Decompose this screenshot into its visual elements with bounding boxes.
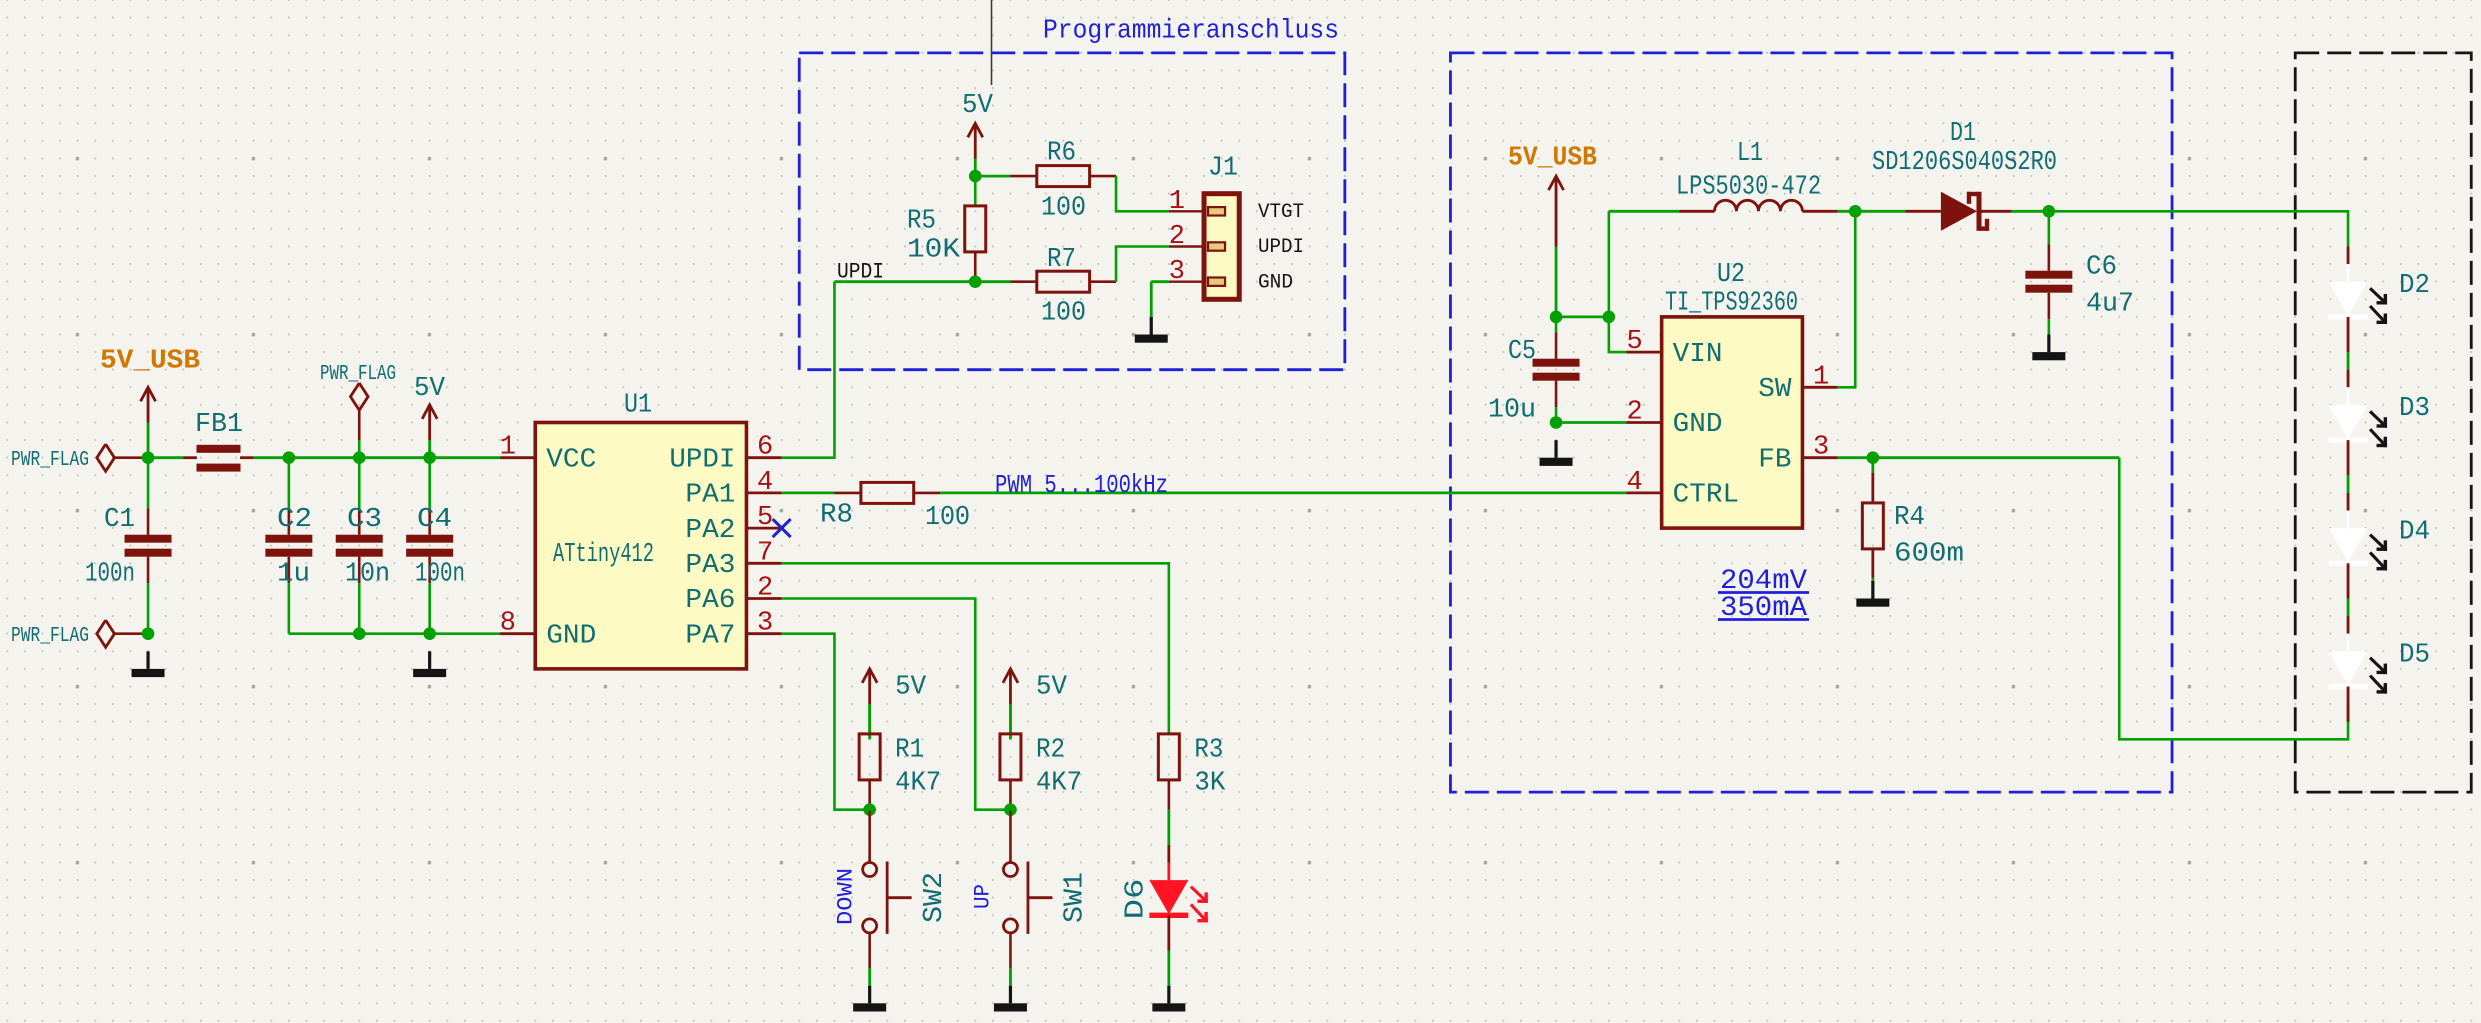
wire into LED D2 <box>2347 247 2350 265</box>
svg-text:D5: D5 <box>2399 641 2430 671</box>
ground below C4 <box>428 651 431 669</box>
junction A3 <box>353 451 366 464</box>
svg-text:L1: L1 <box>1737 139 1763 169</box>
junction A4 <box>423 451 436 464</box>
dashed box LED driver <box>1450 53 2172 792</box>
wire PWM net <box>940 491 1626 494</box>
resistor R8 <box>834 492 860 495</box>
junction B4 <box>1849 205 1862 218</box>
svg-text:R4: R4 <box>1894 503 1925 533</box>
svg-text:C1: C1 <box>104 505 135 535</box>
svg-text:3: 3 <box>1169 257 1185 287</box>
svg-text:GND: GND <box>1673 410 1723 440</box>
pin 1 VCC (U1) <box>500 456 535 459</box>
svg-text:5V: 5V <box>962 91 994 121</box>
ground below C5 <box>1554 440 1557 458</box>
svg-text:U2: U2 <box>1717 260 1745 290</box>
switch SW2 <box>868 811 871 863</box>
junction SW1 top <box>1004 803 1017 816</box>
junction B2 <box>1603 311 1616 324</box>
svg-text:1u: 1u <box>277 560 310 590</box>
capacitor C6 <box>2048 211 2051 244</box>
svg-text:R1: R1 <box>895 736 924 766</box>
ground J1 GND <box>1150 317 1153 335</box>
junction B6 <box>1867 451 1880 464</box>
svg-text:3: 3 <box>757 609 773 639</box>
pin 5 PA2 (U1) <box>746 527 781 530</box>
capacitor C1 <box>147 458 150 509</box>
pin 1 SW (U2) <box>1802 386 1837 389</box>
svg-text:10u: 10u <box>1488 396 1536 426</box>
wire into LED D3 <box>2347 317 2350 352</box>
wire FB row <box>1838 456 2120 459</box>
svg-text:D1: D1 <box>1950 119 1976 149</box>
svg-text:R8: R8 <box>820 501 853 531</box>
pin 6 UPDI (U1) <box>746 456 781 459</box>
ground below R4 <box>1871 581 1874 599</box>
ground below SW2 <box>868 986 871 1004</box>
svg-text:LPS5030-472: LPS5030-472 <box>1676 173 1821 203</box>
svg-text:SW1: SW1 <box>1061 872 1091 923</box>
pin 4 CTRL (U2) <box>1626 491 1661 494</box>
wire PA6 to SW1 column <box>782 599 1011 810</box>
svg-text:7: 7 <box>757 538 773 568</box>
pin 2 UPDI (J1) <box>1169 245 1204 247</box>
pin 2 PA6 (U1) <box>746 597 781 600</box>
svg-text:GND: GND <box>546 621 596 651</box>
dashed box Programmieranschluss <box>799 53 1345 370</box>
svg-text:VTGT: VTGT <box>1258 201 1304 224</box>
power symbol 5V above C4 <box>428 407 431 440</box>
junction A2 <box>283 451 296 464</box>
svg-text:VIN: VIN <box>1673 340 1723 370</box>
svg-text:C3: C3 <box>347 505 382 535</box>
svg-text:Programmieranschluss: Programmieranschluss <box>1043 17 1339 47</box>
junction A6 <box>353 627 366 640</box>
junction A1 <box>142 451 155 464</box>
resistor R2 <box>1009 704 1012 734</box>
svg-text:5: 5 <box>1626 327 1642 357</box>
svg-text:PA7: PA7 <box>685 621 735 651</box>
wire into LED D4 <box>2347 440 2350 475</box>
wire VIN riser <box>1609 211 1627 352</box>
wire D6 to ground <box>1167 915 1170 950</box>
svg-text:PWR_FLAG: PWR_FLAG <box>320 363 396 386</box>
junction B5 <box>2043 205 2056 218</box>
resistor R1 <box>868 704 871 734</box>
svg-text:4: 4 <box>757 468 773 498</box>
svg-text:C6: C6 <box>2086 253 2117 283</box>
svg-text:600m: 600m <box>1894 540 1964 570</box>
wire SW to top row <box>1838 211 1856 387</box>
resistor R7 <box>1010 280 1036 283</box>
power symbol 5V_USB (left) <box>147 389 150 422</box>
svg-text:UP: UP <box>971 884 996 909</box>
power symbol 5V above R2 <box>1009 671 1012 704</box>
wire C5 bottom row (GND pin) <box>1556 421 1626 424</box>
svg-text:CTRL: CTRL <box>1673 481 1739 511</box>
svg-text:SW: SW <box>1758 375 1792 405</box>
svg-text:R7: R7 <box>1047 245 1076 275</box>
svg-text:100: 100 <box>925 503 970 533</box>
svg-text:R6: R6 <box>1047 139 1076 169</box>
svg-text:5V: 5V <box>895 672 927 702</box>
svg-text:1: 1 <box>500 433 516 463</box>
ground below C6 <box>2047 335 2050 353</box>
wire UPDI down to U1 <box>782 282 835 458</box>
power symbol 5V (programming) <box>974 125 977 158</box>
power flag PWR_FLAG above C3 <box>350 383 368 410</box>
pin 1 VTGT (J1) <box>1169 210 1204 212</box>
ground below SW1 <box>1009 986 1012 1004</box>
wire GND rail <box>289 632 500 635</box>
svg-text:5V_USB: 5V_USB <box>100 347 200 377</box>
wire R3 to LED D6 <box>1167 810 1170 845</box>
ferrite bead FB1 <box>183 456 197 459</box>
svg-text:SD1206S040S2R0: SD1206S040S2R0 <box>1872 148 2057 178</box>
svg-text:FB1: FB1 <box>195 410 243 440</box>
svg-text:DOWN: DOWN <box>834 868 859 925</box>
svg-text:D2: D2 <box>2399 271 2430 301</box>
wire VCC rail to U1 <box>254 456 500 459</box>
power flag PWR_FLAG bottom <box>97 620 115 647</box>
wire FB feedback loop <box>2119 458 2348 740</box>
IC U1 ATtiny412 body <box>535 423 746 669</box>
svg-text:3K: 3K <box>1194 769 1226 799</box>
resistor R4 <box>1871 458 1874 473</box>
svg-text:5V_USB: 5V_USB <box>1508 144 1597 174</box>
wire C5 top row <box>1556 315 1609 318</box>
svg-text:PWR_FLAG: PWR_FLAG <box>11 449 89 472</box>
svg-text:4: 4 <box>1626 468 1642 498</box>
svg-text:100: 100 <box>1041 194 1086 224</box>
capacitor C5 <box>1555 317 1558 332</box>
svg-text:8: 8 <box>500 609 516 639</box>
LED D6 <box>1167 863 1170 881</box>
junction P1 <box>969 170 982 183</box>
svg-text:C4: C4 <box>417 505 452 535</box>
junction A7 <box>423 627 436 640</box>
svg-text:TI_TPS92360: TI_TPS92360 <box>1665 289 1798 319</box>
svg-text:PWR_FLAG: PWR_FLAG <box>11 625 89 648</box>
svg-text:C5: C5 <box>1508 337 1536 367</box>
pin 4 PA1 (U1) <box>746 491 781 494</box>
no-connect X on PA2 <box>773 519 791 537</box>
svg-text:100n: 100n <box>85 560 135 590</box>
ground below C1 <box>146 651 149 669</box>
svg-text:D3: D3 <box>2399 394 2430 424</box>
LED D3 <box>2347 387 2350 405</box>
wire VCC rail left <box>148 456 183 459</box>
svg-text:PA1: PA1 <box>685 481 735 511</box>
pin 8 GND (U1) <box>500 632 535 635</box>
svg-text:R2: R2 <box>1036 736 1065 766</box>
svg-text:SW2: SW2 <box>920 872 950 923</box>
svg-text:2: 2 <box>757 574 773 604</box>
wire PA3 to R3 column <box>782 563 1169 704</box>
capacitor C4 <box>428 458 431 509</box>
LED D4 <box>2347 511 2350 529</box>
svg-text:UPDI: UPDI <box>1258 236 1304 259</box>
LED D2 <box>2347 264 2350 282</box>
wire PA7 to SW2 column <box>782 634 870 810</box>
LED D5 <box>2347 634 2350 652</box>
svg-text:1: 1 <box>1813 362 1829 392</box>
wire PA1 to R8 <box>782 491 835 494</box>
wire R6 row <box>975 175 1010 178</box>
svg-text:100: 100 <box>1041 299 1086 329</box>
wire R7 to J1 pin2 <box>1116 247 1169 282</box>
svg-text:PWM 5...100kHz: PWM 5...100kHz <box>995 470 1168 500</box>
svg-text:D6: D6 <box>1122 879 1152 920</box>
wire J1 pin3 to ground <box>1151 280 1169 283</box>
resistor R6 <box>1010 175 1036 178</box>
svg-text:R5: R5 <box>907 207 936 237</box>
svg-text:1: 1 <box>1169 187 1185 217</box>
svg-text:10n: 10n <box>345 560 390 590</box>
resistor R3 <box>1168 704 1171 734</box>
svg-text:5: 5 <box>757 503 773 533</box>
svg-text:6: 6 <box>757 433 773 463</box>
pin 3 GND (J1) <box>1169 281 1204 283</box>
svg-text:PA6: PA6 <box>685 586 735 616</box>
svg-text:4K7: 4K7 <box>1036 769 1082 799</box>
svg-text:5V: 5V <box>414 374 446 404</box>
pin 5 VIN (U2) <box>1626 351 1661 354</box>
wire top row to L1 <box>1609 210 1679 213</box>
power symbol 5V_USB (right) <box>1555 178 1558 246</box>
svg-text:FB: FB <box>1758 445 1791 475</box>
capacitor C3 <box>358 458 361 509</box>
stray vertical sheet line <box>991 0 993 85</box>
pin 3 FB (U2) <box>1802 456 1837 459</box>
junction A5 <box>142 627 155 640</box>
dashed box LED string <box>2295 53 2471 792</box>
resistor R5 <box>974 176 977 206</box>
junction P2 <box>969 275 982 288</box>
wire D5 to feedback <box>2347 687 2350 722</box>
svg-text:C2: C2 <box>277 505 312 535</box>
svg-text:UPDI: UPDI <box>669 445 735 475</box>
pin 3 PA7 (U1) <box>746 632 781 635</box>
wire L1 to D1 <box>1838 210 1906 213</box>
svg-text:100n: 100n <box>415 560 465 590</box>
wire R6 to J1 pin1 <box>1116 176 1169 211</box>
junction SW2 top <box>863 803 876 816</box>
svg-text:R3: R3 <box>1194 736 1223 766</box>
capacitor C2 <box>288 458 291 509</box>
wire into LED D5 <box>2347 563 2350 598</box>
junction B1 <box>1550 311 1563 324</box>
connector J1 body <box>1204 194 1239 300</box>
wire top row to LED string <box>2049 211 2348 246</box>
pin 2 GND (U2) <box>1626 421 1661 424</box>
svg-text:4K7: 4K7 <box>895 769 941 799</box>
svg-text:GND: GND <box>1258 271 1293 294</box>
svg-text:UPDI: UPDI <box>837 260 884 285</box>
svg-text:4u7: 4u7 <box>2086 290 2134 320</box>
ground below D6 <box>1167 986 1170 1004</box>
svg-text:5V: 5V <box>1036 672 1068 702</box>
switch SW1 <box>1009 811 1012 863</box>
wire UPDI row <box>834 280 1010 283</box>
svg-text:2: 2 <box>1169 222 1185 252</box>
svg-text:PA3: PA3 <box>685 551 735 581</box>
power symbol 5V above R1 <box>868 671 871 704</box>
diode D1 (schottky) <box>1906 210 1941 213</box>
svg-text:VCC: VCC <box>546 445 596 475</box>
svg-text:J1: J1 <box>1208 154 1238 184</box>
svg-text:ATtiny412: ATtiny412 <box>553 540 654 570</box>
svg-text:3: 3 <box>1813 433 1829 463</box>
junction B3 <box>1550 416 1563 429</box>
svg-text:10K: 10K <box>907 236 961 266</box>
inductor L1 <box>1679 210 1714 213</box>
IC U2 TPS92360 body <box>1662 317 1803 528</box>
svg-text:PA2: PA2 <box>685 516 735 546</box>
svg-text:D4: D4 <box>2399 517 2430 547</box>
svg-text:2: 2 <box>1626 398 1642 428</box>
power flag PWR_FLAG top <box>97 444 115 471</box>
pin 7 PA3 (U1) <box>746 562 781 565</box>
svg-text:U1: U1 <box>624 391 652 421</box>
